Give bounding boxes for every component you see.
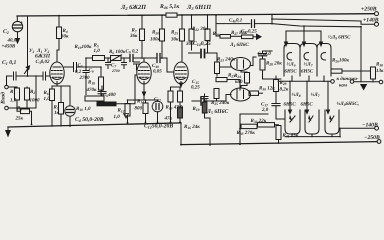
- svg-text:С6400: С6400: [103, 92, 116, 98]
- resistor R27v: [214, 89, 219, 99]
- wire drop x272: [271, 15, 273, 23]
- svg-text:40,0: 40,0: [7, 38, 17, 44]
- svg-text:0,2: 0,2: [75, 69, 82, 75]
- wire x210: [209, 118, 211, 145]
- svg-text:100к: 100к: [150, 37, 161, 43]
- svg-text:С460,1: С460,1: [229, 18, 242, 24]
- svg-text:300: 300: [185, 41, 194, 47]
- svg-text:Л4 6П6С: Л4 6П6С: [229, 42, 249, 48]
- resistor R33: [241, 124, 257, 128]
- svg-text:0,05: 0,05: [153, 69, 162, 75]
- svg-text:6Н5С: 6Н5С: [285, 69, 298, 75]
- wire cathode L1: [52, 85, 70, 87]
- resistor R6: [85, 58, 87, 67]
- resistor R3: [21, 109, 30, 114]
- wire grid drop x27: [27, 16, 29, 76]
- capacitor C19: [204, 94, 206, 96]
- capacitor C9: [134, 62, 140, 64]
- svg-text:С140,25: С140,25: [193, 41, 211, 47]
- capacitor C8a: [123, 58, 125, 62]
- cathode arrows bottom tubes: [290, 116, 334, 122]
- capacitor C5: [64, 66, 72, 68]
- svg-text:к динами-: к динами-: [337, 76, 360, 82]
- svg-text:½Л96Н5С,: ½Л96Н5С,: [337, 101, 359, 107]
- wire C45 line: [216, 15, 250, 36]
- capacitor C14: [189, 52, 200, 54]
- svg-text:С4 50,0-20В: С4 50,0-20В: [75, 117, 104, 123]
- resistor R1: [8, 87, 17, 88]
- svg-text:680: 680: [235, 79, 243, 85]
- resistor R29: [275, 76, 277, 80]
- svg-text:+250В: +250В: [361, 7, 377, 13]
- wire right vertical: [360, 27, 362, 82]
- resistor R23: [215, 62, 220, 74]
- svg-text:С182,0: С182,0: [258, 51, 272, 57]
- svg-text:Л2 6Ж2П: Л2 6Ж2П: [120, 4, 147, 11]
- resistor R46 in bus: [166, 13, 177, 17]
- resistor R25: [181, 15, 183, 29]
- resistor R12: [127, 100, 129, 104]
- resistor R30: [249, 92, 250, 94]
- node out terminal 2: [379, 80, 383, 84]
- tube L3 envelope: [174, 62, 188, 84]
- wire output frame: [240, 114, 268, 144]
- node +140V terminal: [375, 22, 379, 26]
- wire input2: [8, 76, 36, 108]
- resistor R31: [276, 126, 281, 140]
- resistor R28: [262, 56, 264, 59]
- svg-text:1,0: 1,0: [44, 96, 51, 102]
- svg-text:−140В: −140В: [362, 123, 378, 129]
- svg-text:R25 240к: R25 240к: [211, 100, 230, 106]
- svg-text:1,0: 1,0: [114, 114, 121, 120]
- ground left: [7, 127, 9, 131]
- resistor R18: [100, 67, 102, 77]
- tube L9 half envelope: [317, 44, 331, 77]
- resistor R27h: [216, 78, 227, 82]
- resistor R38: [371, 67, 376, 79]
- svg-text:R31 75к: R31 75к: [283, 133, 299, 139]
- tube L11 half envelope: [325, 110, 339, 134]
- svg-text:R16 47,0: R16 47,0: [166, 105, 183, 111]
- wire bottom-left bus: [8, 123, 181, 127]
- wire grid L2: [116, 75, 137, 104]
- capacitor C8: [98, 92, 106, 94]
- svg-text:R28 20к: R28 20к: [266, 61, 282, 67]
- svg-text:1000: 1000: [30, 98, 41, 104]
- resistor R56: [331, 69, 342, 73]
- svg-text:6Ж3П: 6Ж3П: [35, 54, 51, 60]
- capacitor C4: [69, 86, 71, 106]
- tube L8 half envelope: [285, 110, 300, 134]
- capacitor C7: [107, 58, 109, 62]
- svg-text:800: 800: [135, 106, 143, 112]
- tube L10 half envelope: [305, 110, 319, 134]
- resistor R14: [145, 100, 147, 103]
- capacitor C40: [142, 57, 156, 59]
- capacitor series: [130, 55, 133, 62]
- svg-text:R56100к: R56100к: [332, 58, 349, 64]
- svg-text:+140В: +140В: [363, 17, 379, 23]
- wire +140 line: [272, 24, 361, 27]
- svg-text:30к: 30к: [60, 34, 69, 40]
- svg-text:470к: 470к: [86, 87, 98, 93]
- svg-text:13к: 13к: [376, 68, 384, 74]
- tube L4b envelope: [231, 88, 251, 101]
- svg-text:R30 12к: R30 12к: [259, 86, 275, 92]
- svg-text:6Н5С: 6Н5С: [301, 69, 314, 75]
- tube L6 half envelope: [284, 44, 300, 77]
- svg-text:Л3 6Н1П: Л3 6Н1П: [186, 4, 212, 11]
- svg-text:С30,02: С30,02: [36, 59, 51, 65]
- svg-text:R27 82к: R27 82к: [231, 30, 247, 36]
- svg-text:30к: 30к: [170, 37, 179, 43]
- svg-text:R23 240к: R23 240к: [217, 57, 236, 63]
- ground speaker: [354, 81, 379, 83]
- wire L2 line: [272, 19, 374, 24]
- svg-text:6Н5С: 6Н5С: [301, 102, 314, 108]
- potentiometer bar: [97, 102, 116, 106]
- svg-text:+450В: +450В: [2, 44, 16, 50]
- capacitor C15: [192, 100, 200, 102]
- svg-text:С1250,0-20В: С1250,0-20В: [144, 124, 173, 130]
- wire -140 line: [340, 127, 375, 129]
- capacitor C17: [272, 104, 280, 106]
- svg-text:1,0: 1,0: [94, 48, 101, 54]
- resistor R24: [241, 71, 247, 73]
- svg-text:С1 0,1: С1 0,1: [2, 60, 16, 66]
- resistor R11 trimmer: [111, 56, 122, 61]
- svg-text:R6 100к: R6 100к: [109, 49, 126, 55]
- resistor R10: [85, 96, 104, 101]
- svg-text:R46 5,1к: R46 5,1к: [159, 4, 179, 10]
- svg-text:R16 24к: R16 24к: [184, 124, 200, 130]
- capacitor C18: [250, 51, 272, 66]
- capacitor C45: [252, 20, 255, 28]
- svg-text:Л5 6П6С: Л5 6П6С: [206, 109, 228, 115]
- svg-text:R33 270к: R33 270к: [237, 130, 256, 136]
- svg-text:0,25: 0,25: [191, 85, 200, 91]
- node out terminal 1: [350, 80, 354, 84]
- svg-text:25к: 25к: [15, 116, 24, 122]
- svg-text:R10 1,0: R10 1,0: [76, 106, 91, 112]
- svg-text:R32 22к: R32 22к: [251, 118, 267, 124]
- node input terminal 2: [5, 106, 9, 110]
- svg-text:Вход: Вход: [1, 92, 7, 105]
- node +250V terminal: [375, 12, 379, 16]
- resistor R4: [58, 16, 60, 27]
- wire plate chain: [86, 57, 93, 59]
- wire anode bus output: [286, 26, 321, 31]
- wire bottom tube cathodes: [292, 134, 332, 137]
- capacitor C1: [14, 72, 17, 80]
- wire -250 bottom line: [181, 142, 377, 145]
- wire cathode L2: [128, 99, 158, 101]
- capacitor C16: [178, 107, 183, 118]
- svg-text:2,0: 2,0: [261, 107, 269, 113]
- resistor R22: [207, 15, 209, 29]
- tube L4a envelope: [231, 58, 251, 71]
- svg-text:36к: 36к: [129, 33, 138, 39]
- wire anode drops bottom: [290, 81, 328, 113]
- wire top bus: [17, 14, 374, 16]
- capacitor C6: [85, 67, 87, 70]
- wire input: [7, 76, 13, 85]
- svg-text:1к: 1к: [54, 110, 60, 116]
- svg-text:С2: С2: [3, 29, 9, 35]
- tube L2 envelope: [137, 62, 151, 84]
- svg-text:0,2: 0,2: [132, 49, 139, 55]
- wire cathode row: [292, 76, 324, 81]
- capacitor C12: [157, 100, 159, 101]
- svg-text:47к: 47к: [164, 116, 173, 122]
- svg-text:½Л9 6Н5С: ½Л9 6Н5С: [328, 34, 351, 40]
- svg-text:1,0: 1,0: [10, 98, 17, 104]
- grid curves: [287, 53, 292, 61]
- svg-text:6Н5С: 6Н5С: [284, 102, 297, 108]
- svg-text:R19100к: R19100к: [75, 44, 92, 50]
- node speaker terminal: [331, 80, 335, 84]
- svg-text:ком: ком: [339, 84, 348, 89]
- node input terminal 1: [5, 85, 9, 89]
- svg-text:8,2к: 8,2к: [280, 87, 289, 93]
- resistors grid output: [171, 87, 182, 91]
- node -250V terminal: [377, 140, 381, 144]
- resistor R2: [26, 87, 28, 88]
- resistor R35: [258, 123, 275, 127]
- tube L7 half envelope: [300, 44, 317, 77]
- node -140V terminal: [375, 126, 379, 130]
- capacitor C3: [43, 72, 46, 80]
- tube L1 envelope: [50, 62, 64, 84]
- svg-text:−250В: −250В: [364, 135, 380, 141]
- resistor R20: [161, 15, 163, 29]
- capacitor C2: [16, 16, 18, 22]
- resistor R7: [141, 16, 143, 30]
- resistor R21: [191, 15, 193, 29]
- svg-text:2700: 2700: [111, 69, 120, 73]
- resistor R5: [51, 86, 53, 89]
- svg-text:R22 30к: R22 30к: [192, 26, 208, 32]
